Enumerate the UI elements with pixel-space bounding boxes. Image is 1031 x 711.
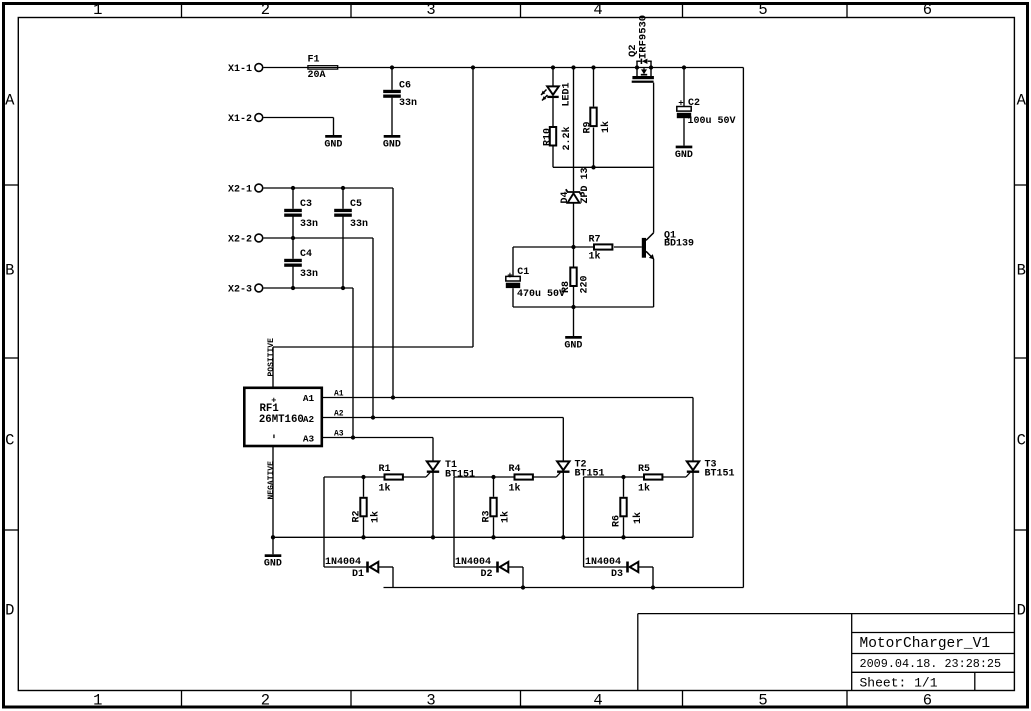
svg-text:X2-3: X2-3 bbox=[228, 285, 252, 296]
svg-text:D2: D2 bbox=[481, 569, 493, 580]
svg-text:C5: C5 bbox=[350, 199, 362, 210]
svg-text:X1-1: X1-1 bbox=[228, 64, 252, 75]
svg-text:R7: R7 bbox=[589, 234, 601, 245]
svg-text:4: 4 bbox=[593, 691, 602, 709]
svg-text:C1: C1 bbox=[517, 267, 529, 278]
svg-text:MotorCharger_V1: MotorCharger_V1 bbox=[860, 636, 991, 652]
svg-text:A3: A3 bbox=[334, 430, 344, 439]
svg-text:D: D bbox=[5, 602, 14, 620]
svg-text:C3: C3 bbox=[300, 199, 312, 210]
svg-text:1k: 1k bbox=[500, 511, 512, 523]
svg-text:LED1: LED1 bbox=[561, 82, 572, 106]
svg-text:GND: GND bbox=[675, 150, 693, 161]
svg-text:2: 2 bbox=[261, 1, 270, 19]
svg-text:ZPD 13: ZPD 13 bbox=[580, 167, 591, 203]
svg-text:1k: 1k bbox=[600, 121, 612, 133]
svg-text:D: D bbox=[1017, 602, 1026, 620]
svg-text:470u 50V: 470u 50V bbox=[517, 289, 565, 300]
svg-text:R9: R9 bbox=[583, 121, 594, 133]
svg-text:33n: 33n bbox=[350, 219, 368, 230]
svg-text:R5: R5 bbox=[638, 464, 650, 475]
svg-text:1N4004: 1N4004 bbox=[585, 557, 621, 568]
svg-text:4: 4 bbox=[593, 1, 602, 19]
svg-text:POSITIVE: POSITIVE bbox=[267, 338, 276, 377]
svg-text:X2-2: X2-2 bbox=[228, 235, 252, 246]
svg-text:+: + bbox=[507, 271, 512, 281]
svg-text:R3: R3 bbox=[482, 510, 493, 522]
svg-text:B: B bbox=[1017, 262, 1026, 280]
svg-text:5: 5 bbox=[758, 1, 767, 19]
svg-text:NEGATIVE: NEGATIVE bbox=[267, 461, 276, 500]
svg-text:D4: D4 bbox=[560, 191, 571, 203]
svg-text:1k: 1k bbox=[589, 251, 601, 263]
svg-text:R2: R2 bbox=[352, 510, 363, 522]
svg-text:6: 6 bbox=[923, 691, 932, 709]
svg-text:R10: R10 bbox=[543, 128, 554, 146]
svg-text:3: 3 bbox=[426, 1, 435, 19]
svg-text:BT151: BT151 bbox=[445, 470, 475, 481]
svg-text:33n: 33n bbox=[399, 98, 417, 109]
svg-text:R4: R4 bbox=[509, 464, 521, 475]
svg-text:33n: 33n bbox=[300, 269, 318, 280]
svg-text:BT151: BT151 bbox=[575, 469, 605, 480]
svg-text:33n: 33n bbox=[300, 219, 318, 230]
svg-text:Sheet: 1/1: Sheet: 1/1 bbox=[860, 676, 938, 691]
svg-text:D1: D1 bbox=[352, 569, 364, 580]
svg-text:1: 1 bbox=[93, 691, 102, 709]
svg-text:1N4004: 1N4004 bbox=[455, 557, 491, 568]
svg-text:C6: C6 bbox=[399, 81, 411, 92]
svg-text:A1: A1 bbox=[303, 393, 315, 404]
svg-text:A: A bbox=[5, 92, 15, 110]
svg-text:1k: 1k bbox=[509, 483, 521, 495]
svg-text:100u 50V: 100u 50V bbox=[688, 116, 736, 127]
svg-text:X2-1: X2-1 bbox=[228, 185, 252, 196]
svg-text:220: 220 bbox=[580, 275, 591, 293]
svg-text:BD139: BD139 bbox=[664, 238, 694, 249]
svg-text:A2: A2 bbox=[303, 414, 315, 425]
svg-text:1k: 1k bbox=[370, 511, 382, 523]
svg-text:C: C bbox=[1017, 432, 1026, 450]
svg-text:1N4004: 1N4004 bbox=[325, 557, 361, 568]
svg-text:5: 5 bbox=[758, 691, 767, 709]
svg-text:C2: C2 bbox=[688, 98, 700, 109]
svg-text:R6: R6 bbox=[612, 515, 623, 527]
svg-text:1k: 1k bbox=[632, 512, 644, 524]
svg-text:A1: A1 bbox=[334, 390, 344, 399]
svg-text:A2: A2 bbox=[334, 410, 344, 419]
svg-text:3: 3 bbox=[426, 691, 435, 709]
svg-text:F1: F1 bbox=[308, 55, 320, 66]
svg-text:2009.04.18. 23:28:25: 2009.04.18. 23:28:25 bbox=[860, 657, 1002, 671]
svg-text:20A: 20A bbox=[308, 70, 326, 81]
svg-text:D3: D3 bbox=[611, 569, 623, 580]
svg-text:A: A bbox=[1017, 92, 1027, 110]
svg-text:+: + bbox=[678, 99, 683, 109]
svg-text:A3: A3 bbox=[303, 433, 315, 444]
svg-text:GND: GND bbox=[564, 340, 582, 351]
svg-text:1: 1 bbox=[93, 1, 102, 19]
svg-text:1k: 1k bbox=[379, 483, 391, 495]
svg-text:C: C bbox=[5, 432, 14, 450]
svg-text:GND: GND bbox=[324, 139, 342, 150]
svg-text:BT151: BT151 bbox=[705, 469, 735, 480]
svg-text:C4: C4 bbox=[300, 249, 312, 260]
svg-text:R1: R1 bbox=[379, 464, 391, 475]
svg-text:2: 2 bbox=[261, 691, 270, 709]
svg-text:IRF9530: IRF9530 bbox=[638, 15, 650, 59]
svg-text:26MT160: 26MT160 bbox=[259, 414, 304, 426]
svg-text:GND: GND bbox=[383, 139, 401, 150]
svg-text:6: 6 bbox=[923, 1, 932, 19]
svg-text:GND: GND bbox=[264, 559, 282, 570]
svg-text:R8: R8 bbox=[561, 281, 572, 293]
svg-text:X1-2: X1-2 bbox=[228, 114, 252, 125]
svg-text:1k: 1k bbox=[638, 483, 650, 495]
svg-text:2.2k: 2.2k bbox=[561, 126, 573, 150]
svg-text:B: B bbox=[5, 262, 14, 280]
